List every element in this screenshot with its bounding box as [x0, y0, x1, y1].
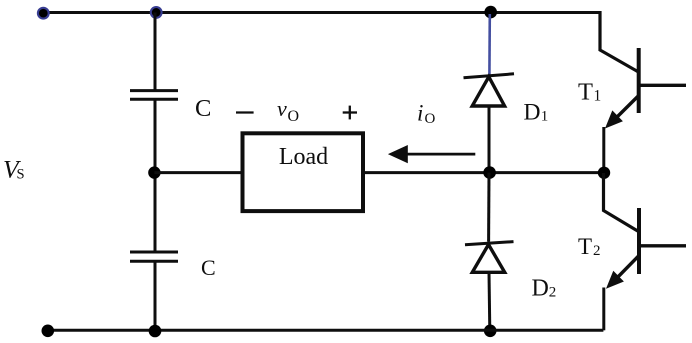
- svg-text:C: C: [195, 95, 211, 122]
- node dot mid diode branch: [483, 166, 496, 179]
- svg-text:S: S: [17, 167, 25, 183]
- svg-text:O: O: [425, 111, 436, 127]
- diode D2: [465, 242, 514, 245]
- wire mid node to D2: [487, 173, 490, 242]
- capacitor C (bottom) plates: [130, 251, 178, 254]
- capacitor C (top) plates: [130, 89, 178, 92]
- wire blue segment above D1: [488, 14, 491, 77]
- terminal dot top-left (blue ring): [38, 8, 49, 19]
- wire D1 to mid node: [488, 106, 491, 173]
- label minus: [236, 111, 254, 113]
- svg-text:T: T: [578, 79, 593, 106]
- load box: [243, 133, 364, 211]
- wire T2 emitter lead: [602, 288, 605, 331]
- node dot mid right: [598, 167, 610, 179]
- svg-text:T: T: [578, 234, 592, 259]
- node dot left branch mid: [148, 166, 160, 178]
- wire bottom rail: [48, 329, 604, 332]
- wire T2 collector lead: [604, 173, 639, 232]
- wire T1 collector lead: [600, 11, 639, 72]
- svg-text:i: i: [417, 100, 423, 125]
- wire left branch lower: [154, 261, 157, 330]
- wire T1 emitter lead: [602, 127, 605, 173]
- svg-text:2: 2: [593, 243, 601, 259]
- wire mid rail left (node to Load): [154, 171, 242, 174]
- current arrow iO: [404, 153, 475, 156]
- transistor T1: [637, 48, 641, 113]
- node dot top diode branch: [484, 6, 497, 19]
- svg-text:D: D: [524, 100, 541, 126]
- wire mid rail right (Load to transistor node): [363, 171, 604, 174]
- svg-text:2: 2: [549, 285, 557, 301]
- svg-text:C: C: [201, 255, 216, 280]
- label plus: [343, 111, 357, 113]
- node dot bottom of capacitor branch: [149, 325, 162, 338]
- node dot bottom diode branch: [484, 325, 497, 338]
- svg-text:1: 1: [594, 88, 602, 105]
- diode D1: [464, 74, 515, 78]
- svg-text:1: 1: [541, 108, 549, 124]
- wire top rail: [43, 11, 600, 14]
- svg-text:D: D: [532, 276, 549, 302]
- terminal dot bottom-left: [42, 325, 55, 338]
- svg-text:Load: Load: [279, 144, 328, 170]
- wire D2 to bottom rail: [488, 272, 492, 330]
- wire left branch upper: [154, 13, 157, 91]
- svg-text:O: O: [288, 108, 300, 125]
- wire left branch middle: [154, 99, 157, 252]
- node dot top of capacitor branch (blue ring): [151, 7, 162, 18]
- svg-text:v: v: [277, 96, 287, 121]
- transistor T2: [637, 208, 641, 274]
